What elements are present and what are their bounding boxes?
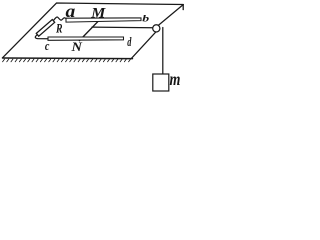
svg-text:R: R	[55, 22, 63, 36]
svg-text:N: N	[70, 40, 83, 54]
svg-text:d: d	[127, 35, 132, 49]
svg-text:M: M	[90, 6, 106, 21]
svg-text:b: b	[142, 12, 149, 23]
svg-text:c: c	[45, 40, 50, 53]
svg-text:m: m	[170, 71, 181, 90]
svg-text:a: a	[66, 2, 76, 22]
